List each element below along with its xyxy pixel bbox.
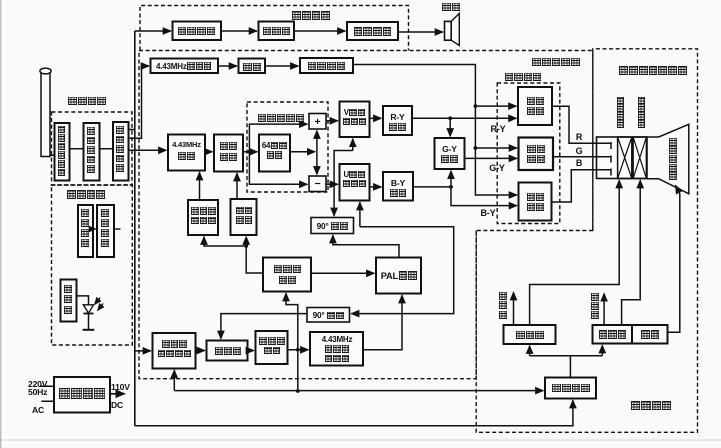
wire loop to lower 90°移相 right	[351, 227, 453, 314]
伴音中放 sound IF amp	[173, 22, 222, 41]
text 4.43MHz带通	[168, 141, 205, 150]
label 伴音通道	[281, 11, 341, 22]
text 亮度放大	[303, 61, 350, 72]
text 鉴相器	[208, 346, 248, 356]
text 开关电源	[57, 388, 107, 402]
wires AC input	[40, 386, 54, 401]
dashed box 伴音通道 sound channel	[140, 6, 409, 51]
antenna mast	[41, 72, 50, 157]
亮度放大 luminance amp	[300, 58, 353, 73]
wire 行消隐 blanking arrow	[603, 294, 605, 325]
高压 high voltage	[632, 325, 668, 344]
wire 鉴相器 to 低通滤波器	[248, 350, 254, 352]
text 自动色度控制	[189, 207, 218, 226]
text G-Y矩阵	[435, 144, 465, 164]
label 扫描系统	[626, 401, 676, 413]
同步分离 sync separator	[545, 378, 596, 399]
wire G-Y to 视放末级2	[465, 157, 517, 159]
text 中频放大器	[87, 127, 95, 173]
text 伴音中放	[174, 26, 219, 37]
label DC	[111, 400, 129, 410]
wire PAL开关 top to 90°移相 bottom	[333, 235, 399, 257]
label 50Hz	[28, 387, 52, 397]
wire video bus vertical	[134, 31, 136, 426]
wire 90°移相 to 鉴相器 top	[221, 314, 307, 339]
text 色同步选通放大	[153, 340, 196, 360]
色同步选通放大 burst gate amp	[153, 333, 196, 369]
wire U det to B-Y矩阵	[370, 186, 382, 188]
色度放大 chroma amp	[214, 135, 243, 172]
wire V det to R-Y矩阵	[370, 117, 382, 119]
wire 带通 to 色度放大	[205, 151, 212, 153]
text 自动消色	[231, 206, 257, 226]
dashed box 梳状滤波器 comb filter	[247, 102, 328, 192]
text 视放末级2	[519, 144, 553, 165]
text 视频检波器	[116, 126, 124, 172]
dashed box 解码矩阵 decode matrix	[497, 83, 560, 224]
行扫描 line scan	[593, 325, 633, 344]
4.43MHz带通 bandpass	[168, 135, 205, 171]
wire antenna to tuner	[50, 154, 55, 156]
视频检波器 video detector	[113, 122, 129, 181]
wire 双稳态 left feed	[246, 246, 263, 273]
wire 陷波器 to 延时	[218, 65, 237, 67]
convergence coil 会聚线圈	[618, 137, 632, 179]
wire 低通 to VCO	[288, 349, 309, 351]
text 遥控接收	[81, 209, 89, 247]
wire up to 双稳态 bottom	[286, 293, 298, 313]
wire G to CRT	[553, 156, 611, 158]
wire to 场扫描	[529, 346, 531, 356]
dashed box 彩色解码器 color decoder	[139, 51, 593, 379]
wire video det stub to bus	[129, 129, 135, 131]
text U同步检波器	[340, 170, 369, 188]
微处理器 microprocessor	[97, 205, 114, 257]
wire R-Y to 视放末级1	[412, 117, 516, 119]
64微秒延时 64us delay line	[259, 135, 290, 172]
PAL开关 PAL switch	[376, 258, 421, 294]
adder +	[309, 114, 326, 130]
wire Y to 视放末级1	[475, 105, 516, 107]
remote LED photodiode	[77, 296, 89, 305]
label 220V	[28, 379, 52, 389]
wire B-Y to 视放末级3	[451, 187, 517, 206]
wire video det to 4.43MHz带通	[129, 149, 167, 151]
电调谐高频头 tuner	[55, 123, 70, 181]
label 梳状滤波器	[252, 113, 310, 124]
adder -	[309, 176, 326, 192]
中频放大器 IF amp	[84, 123, 100, 181]
wire up into V det bottom	[352, 139, 354, 151]
遥控接收 remote receiver	[78, 205, 93, 257]
CRT neck box	[597, 137, 648, 179]
text 低通滤波器	[256, 337, 288, 357]
label G	[574, 146, 584, 157]
text 同步分离	[547, 383, 595, 394]
text 视放末级1	[519, 96, 552, 117]
text 伴音功放	[349, 27, 396, 38]
label 场消隐	[499, 292, 507, 319]
text R-Y矩阵	[383, 112, 412, 132]
4.43MHz副载波振荡器 subcarrier VCO	[310, 332, 363, 366]
label 偏转线圈	[638, 97, 646, 128]
text B-Y矩阵	[383, 178, 413, 198]
text 双稳态电路	[264, 264, 311, 285]
wire direct to adder +	[249, 124, 307, 152]
90°移相 upper phase shifter	[311, 218, 354, 234]
text 微处理器	[101, 209, 109, 247]
wire bus to 伴音中放	[135, 30, 171, 32]
text 视放末级3	[519, 192, 552, 213]
label 公共通道	[57, 96, 117, 107]
场扫描 field scan	[504, 325, 556, 344]
dashed box 扫描及图像重现/扫描系统 scan system	[476, 49, 697, 433]
双稳态电路 bistable	[263, 258, 311, 292]
wire + to V同步检波器	[326, 120, 338, 122]
label 行消隐	[591, 293, 599, 320]
text -	[309, 178, 326, 190]
伴音功放 audio power amp	[347, 22, 398, 40]
wire 高压 to CRT anode	[668, 194, 680, 333]
wire R-Y down to G-Y矩阵	[449, 118, 451, 136]
wire Y to 视放末级2	[475, 147, 516, 149]
wire 微处理器 stub	[114, 228, 121, 230]
wire Y luminance bus to 视放末级3	[353, 65, 517, 196]
wire 场消隐 blanking arrow	[513, 292, 515, 325]
wire up to 自动色度控制	[204, 237, 246, 246]
wire 延时 to 亮度放大	[265, 65, 298, 67]
wire down into 90°移相 top	[334, 151, 353, 216]
R-Y矩阵 matrix	[383, 106, 412, 135]
自动消色 color killer	[231, 199, 257, 235]
label 遥控系统	[56, 190, 116, 201]
text 遥控板	[64, 285, 72, 314]
text 色度放大	[215, 141, 242, 162]
4.43MHz陷波器 notch filter	[151, 59, 219, 74]
wire 双稳态 to PAL开关	[311, 272, 374, 274]
label 扫描及图像重现	[612, 66, 694, 77]
text 电调谐高频头	[58, 126, 66, 177]
wire B-Y out	[413, 186, 451, 188]
text 90°移相 lower	[308, 311, 349, 321]
自动色度控制 ACC	[188, 200, 218, 235]
wire direct to adder -	[249, 152, 307, 185]
label G-Y	[482, 163, 512, 174]
wire VCO to PAL开关 bottom	[363, 295, 402, 350]
wire 伴音中放 to 鉴频器	[221, 30, 257, 32]
text 场扫描	[506, 330, 554, 341]
wire R to CRT	[552, 106, 611, 143]
遥控板 remote panel	[61, 280, 77, 322]
speaker 喇叭	[445, 21, 452, 40]
text 高压	[634, 330, 666, 341]
鉴相器 phase detector	[207, 341, 248, 361]
wire up to 色同步选通放大 bottom	[173, 370, 175, 390]
dashed box 遥控系统 remote control system	[52, 185, 133, 345]
text 4.43MHz副载波振荡器	[311, 335, 363, 363]
deflection coil 偏转线圈	[633, 137, 646, 179]
wire B-Y up to G-Y矩阵	[450, 171, 452, 187]
wire 鉴频器 to 伴音功放	[294, 30, 345, 32]
wire 场扫描 to 会聚线圈	[530, 180, 620, 325]
开关电源 switch power supply	[54, 377, 110, 413]
label 喇叭	[437, 2, 465, 13]
wire down to sync line	[297, 314, 299, 391]
faint scan artifact lines	[0, 439, 721, 441]
wire bus to 色同步选通放大	[135, 350, 151, 352]
text 行扫描	[594, 330, 631, 341]
text +	[309, 116, 326, 128]
wire delay out	[290, 151, 315, 153]
text 64微秒延时	[260, 141, 289, 160]
G-Y矩阵 matrix	[435, 138, 465, 169]
wire 110V DC output	[110, 393, 125, 395]
anode arrow into funnel	[676, 186, 680, 194]
wire - to U同步检波器	[326, 183, 338, 185]
text V同步检波器	[340, 108, 369, 126]
text 延时	[240, 62, 265, 73]
wire killer to 色度放大	[236, 173, 238, 199]
text 鉴频器	[261, 26, 292, 37]
label AC	[32, 405, 50, 415]
B-Y矩阵 matrix	[383, 172, 413, 201]
label B	[574, 158, 584, 169]
V同步检波器 V sync detector	[340, 102, 370, 138]
text 90°移相 upper	[312, 222, 353, 232]
wire to - top	[316, 152, 318, 174]
wire 色度放大 to 64微秒延时	[243, 151, 257, 153]
wire to + bottom	[316, 131, 318, 152]
wire B to CRT	[552, 170, 612, 202]
label B-Y	[473, 208, 503, 219]
dashed box 公共通道 common channel	[52, 112, 133, 185]
label 110V	[111, 382, 137, 392]
label 会聚线圈	[617, 97, 625, 128]
wire 伴音功放 to speaker	[398, 31, 443, 33]
鉴频器 FM detector	[259, 22, 295, 41]
label 彩色显像管	[669, 138, 677, 181]
wire to 行扫描	[601, 345, 603, 356]
wires tuner chain	[70, 148, 114, 150]
wire 色同步 to 鉴相器	[196, 350, 205, 352]
延时 delay	[239, 59, 266, 74]
label R-Y	[483, 124, 513, 135]
text 4.43MHz陷波器	[151, 62, 217, 71]
90°移相 lower phase shifter	[307, 308, 350, 323]
wire up to 自动消色	[245, 237, 247, 246]
视放末级 video output 2	[519, 138, 554, 171]
label R	[574, 132, 584, 143]
label 彩色解码器	[525, 57, 587, 68]
wire sync line to 同步分离	[174, 390, 543, 392]
U同步检波器 U sync detector	[340, 164, 370, 201]
wire to 4.43MHz陷波器	[129, 66, 149, 138]
视放末级 video output 1	[518, 87, 552, 125]
wire 同步分离 outputs	[530, 356, 603, 378]
wire 遥控接收 to 微处理器	[93, 228, 96, 230]
wire ACC to 带通	[199, 172, 201, 200]
CRT funnel 彩色显像管	[647, 124, 689, 194]
wire bus bottom to 同步分离	[135, 400, 573, 426]
text PAL开关	[377, 271, 421, 282]
wire 行扫描 to 偏转线圈	[622, 180, 641, 325]
视放末级 video output 3	[519, 183, 552, 221]
低通滤波器 low pass filter	[256, 331, 288, 364]
wire up into U det bottom	[359, 202, 361, 227]
label 解码矩阵	[498, 72, 548, 83]
